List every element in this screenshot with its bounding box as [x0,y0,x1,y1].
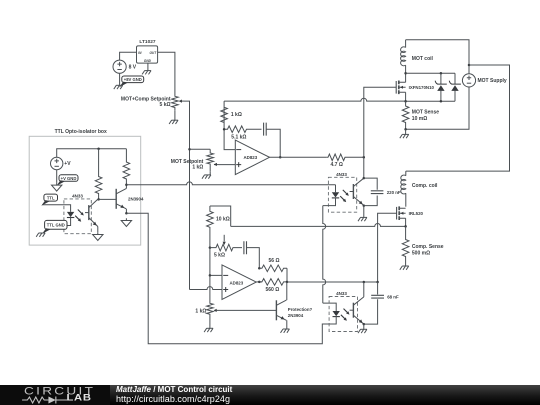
wire Q1 emitter [125,209,127,213]
junction Q1 emitter [125,212,128,215]
wire opto1 emitter to cap bottom [364,196,377,206]
voltage source MOT Supply [462,74,506,87]
potentiometer MOT Setpoint 1k [171,149,219,171]
wire opamp1 output [270,156,327,158]
wire Q1 emitter to bottom rail [126,213,336,344]
ground +8V GND [114,85,123,89]
svg-text:TTL GND: TTL GND [47,223,65,228]
MOT coil L1 [401,40,434,73]
light arrows opto1 [343,190,348,195]
junction comp sense node [404,225,407,228]
net flag +8V GND [119,76,144,87]
svg-text:4N33: 4N33 [72,193,83,198]
svg-text:5.1 kΩ: 5.1 kΩ [231,135,246,141]
wire +V source bottom [56,170,58,183]
svg-text:220 nF: 220 nF [387,190,401,195]
svg-text:MOT Supply: MOT Supply [478,78,507,84]
junction gate node [363,156,366,159]
TTL Opto-isolator box [29,129,141,245]
svg-text:1 kΩ: 1 kΩ [192,164,203,170]
op-amp U2 AD823 upper [235,140,269,175]
LED opto0 [48,212,74,226]
wire MOT supply bottom [406,87,469,129]
svg-text:MOT Sense: MOT Sense [412,110,439,116]
junction opto2 emitter [363,323,366,326]
resistor 1k feedback top [221,101,228,129]
phototransistor opto2 [350,297,364,324]
resistor pullup R3 [95,149,102,200]
wire TTL to LED anode [42,205,71,212]
optocoupler U5 4N33 gate driver [328,172,356,212]
svg-text:GND: GND [144,59,152,63]
junction opamp1 minus [223,128,226,131]
svg-text:10 mΩ: 10 mΩ [412,116,427,122]
wire 8V source to LT1027 IN [120,52,137,60]
wire opamp1 minus input [224,129,235,149]
wire +V top rail [57,149,127,158]
resistor 4.7 ohm gate [327,154,364,161]
svg-text:8 V: 8 V [129,64,137,70]
wire 8V source bottom [119,73,121,85]
wire cap to output node [247,248,260,269]
wire MOT supply to comp rail [406,65,510,171]
ground 1k pot [204,328,213,332]
resistor Comp Sense 500m [402,226,443,262]
wire LED rail down to LED1 [335,185,337,193]
transistor Q2 2N3904 protection [276,300,312,320]
wire opto2 emitter to cap bottom [364,299,378,324]
wire setpoint wiper node A [185,101,190,289]
ground comp sense [400,266,409,270]
LT1027 regulator U1 [137,39,158,63]
net flag +V GND [56,175,78,186]
capacitor feedback upper [264,123,267,136]
junction source node [404,100,407,103]
ground opto2 [358,329,367,333]
diode D1 TVS [435,73,447,101]
svg-text:TTL Opto-isolator box: TTL Opto-isolator box [55,129,107,135]
wire IRL520 source down [405,218,407,226]
phototransistor opto0 [85,199,98,226]
voltage source +V [51,157,72,169]
svg-text:+8V GND: +8V GND [124,77,142,82]
svg-text:OUT: OUT [149,51,157,55]
wire LED1 cathode chain down [323,206,326,304]
wire opto0 collector to base [99,198,117,200]
wire opto2 collector up [363,282,365,297]
transistor M1 IXFN170N10 [396,73,434,101]
wire wiper to opamp1 plus input [219,164,236,166]
node A junction [188,148,191,151]
svg-text:10 kΩ: 10 kΩ [216,217,230,223]
svg-text:5 kΩ: 5 kΩ [214,253,225,259]
junction gate chain node [376,281,379,284]
optocoupler U6 4N33 protection [329,291,357,332]
wire cap to output [266,129,280,157]
junction opto1 emitter [363,204,366,207]
svg-text:Protection?: Protection? [288,307,313,312]
potentiometer 1k offset [195,300,216,325]
potentiometer MOT+Comp Setpoint 5k [121,93,185,111]
resistor 5.1k feedback [224,126,261,133]
wire Q2 collector up [286,282,288,300]
resistor pullup R4 [123,149,130,185]
junction opamp1 output [279,156,282,159]
svg-text:TTL: TTL [47,195,55,200]
ground TTL GND hatch [36,233,45,237]
svg-text:IRL520: IRL520 [409,211,424,216]
CircuitLab logo [24,385,144,405]
resistor 56 ohm [259,265,287,272]
wire Q2 emitter down [286,320,288,329]
wire node A to opamp2 plus [190,287,223,290]
LED opto2 [333,311,340,318]
svg-text:2N3904: 2N3904 [288,313,304,318]
svg-text:Comp. Sense: Comp. Sense [412,244,444,250]
svg-text:68 nF: 68 nF [387,295,399,300]
LED opto1 [323,192,339,205]
wire gate node up to IXFN gate [364,87,396,157]
junction diode1 bottom [440,100,443,103]
junction 10k bottom [209,246,212,249]
footer text [116,386,232,404]
junction opamp2 minus [209,274,212,277]
junction drain [404,72,407,75]
ground MOT sense [400,134,409,138]
wire opto1 emitter ground [363,206,365,218]
junction fb tee [258,267,261,270]
wire wiper to Q2 base [217,309,277,311]
diode D2 TVS [449,73,461,101]
Comp coil L2 [401,171,438,207]
svg-text:AD823: AD823 [230,280,244,285]
wire top rail to MOT supply [406,40,469,74]
wire sense to ground [405,129,407,134]
svg-text:4.7 Ω: 4.7 Ω [331,162,343,168]
wire minus chain to pot [209,275,211,300]
capacitor 68nF [371,295,399,300]
protection rail [287,281,378,283]
wire opto2 emitter ground [363,324,365,329]
wire opto0 collector up [97,198,99,200]
svg-text:MOT coil: MOT coil [412,56,434,62]
op-amp U3 AD823 lower [222,265,256,300]
ground Q1 emitter [121,218,131,226]
svg-text:IXFN170N10: IXFN170N10 [409,85,435,90]
svg-text:LT1027: LT1027 [139,39,156,45]
svg-text:1 kΩ: 1 kΩ [195,308,206,314]
wire 68nF top [377,282,379,295]
wire drain rail to diodes [406,72,455,74]
wire Q1 collector [125,185,127,189]
ground LT1027 [142,71,151,75]
wire 10k top loop [210,206,231,226]
svg-text:4N33: 4N33 [336,291,347,296]
junction opto2 collector node [363,281,366,284]
svg-text:500 mΩ: 500 mΩ [412,250,430,256]
svg-text:AD823: AD823 [244,155,258,160]
wire 56 right down [286,268,288,282]
ground opto0 emitter [93,232,103,240]
resistor 560 ohm [259,279,287,286]
ground Q2 emitter [281,329,290,333]
feedback rail MOT sense [224,98,406,101]
junction 560 right [286,281,289,284]
junction opto1 collector [363,177,366,180]
wire IRL520 gate [378,213,397,282]
svg-text:Comp. coil: Comp. coil [412,183,438,189]
capacitor 220nF [371,190,401,195]
wire node A to MOT Setpoint pot [190,148,211,150]
junction output2 [258,281,261,284]
junction MOT sense bottom [404,128,407,131]
potentiometer 5k comp [210,235,242,259]
wire opto1 collector to cap [364,178,377,190]
svg-text:2N3904: 2N3904 [128,196,144,201]
net flag TTL [41,194,57,206]
junction opto0 collector [97,198,100,201]
ground opto1 [358,217,367,221]
resistor MOT Sense 10m [402,101,439,129]
svg-text:4N33: 4N33 [336,172,347,177]
comp sense bus [231,223,406,226]
svg-text:+V: +V [64,161,71,167]
ground pot R2 [202,175,211,179]
svg-text:56 Ω: 56 Ω [269,258,280,264]
transistor M2 IRL520 [397,206,424,220]
svg-text:+V GND: +V GND [61,176,77,181]
light arrows opto2 [344,309,349,314]
junction +V rail [97,147,100,150]
net flag TTL GND [42,220,67,234]
wire LT1027 GND pin [147,63,149,71]
wire opamp2 output [256,281,262,283]
svg-text:1 kΩ: 1 kΩ [231,112,242,118]
transistor Q1 2N3904 TTL [116,189,144,209]
svg-text:5 kΩ: 5 kΩ [160,102,171,108]
junction MOT supply top branch [468,64,471,67]
LED drive rail [126,182,335,185]
light arrows opto0 [78,210,83,215]
junction diode1 top [440,72,443,75]
optocoupler U4 4N33 TTL [64,193,91,233]
wire gate node down to opto1 collector [363,157,365,178]
junction Q1 collector [125,184,128,187]
wire pot R2 to ground [209,171,211,175]
wire diode bottom rail [406,100,455,102]
ground pot R1 [169,120,178,124]
wire opto0 emitter down [97,227,99,233]
wire pot R1 bottom to ground [174,111,176,120]
phototransistor opto1 [350,178,364,205]
voltage source V1 8V [113,60,137,73]
wire minus chain [210,248,222,276]
capacitor comp feedback [244,241,247,254]
svg-text:560 Ω: 560 Ω [266,287,280,293]
resistor 10k [207,206,214,248]
wire LT1027 OUT to pot R1 [158,52,175,93]
ground +V triangle [52,183,62,191]
